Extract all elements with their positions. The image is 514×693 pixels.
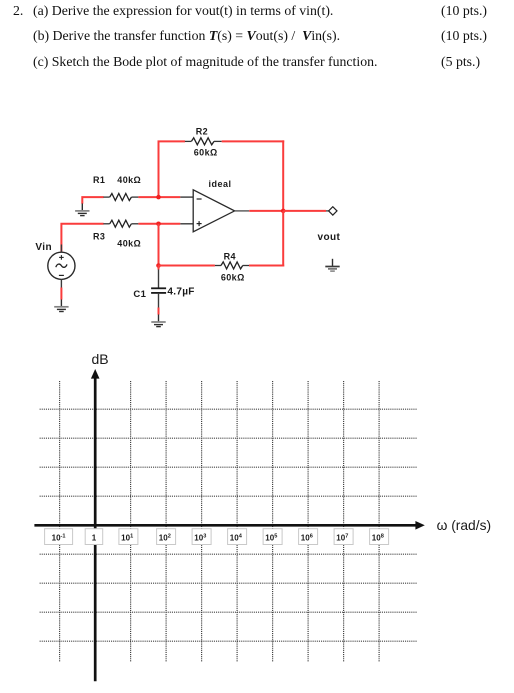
- wire from ground to R1: [82, 197, 103, 204]
- tick label 10^7: [334, 529, 353, 545]
- label 4.7µF: [167, 287, 194, 298]
- svg-text:60kΩ: 60kΩ: [221, 273, 245, 283]
- label 40kΩ of R3: [117, 239, 141, 249]
- wire output lead to output node: [249, 210, 283, 212]
- capacitor C1: [151, 288, 166, 293]
- svg-text:40kΩ: 40kΩ: [117, 239, 141, 249]
- output node junction dot: [281, 209, 286, 214]
- ground G2: [325, 267, 339, 272]
- wire node C to R4: [159, 265, 215, 267]
- ground G4: [151, 322, 165, 327]
- svg-text:1: 1: [92, 533, 97, 542]
- svg-text:C1: C1: [133, 289, 146, 300]
- svg-text:Vin: Vin: [35, 242, 52, 253]
- node A junction dot: [156, 195, 161, 200]
- source Vin: [48, 252, 75, 279]
- tick label 10^1: [119, 529, 138, 545]
- tick label 10^4: [228, 529, 247, 545]
- Vin top lead: [60, 245, 62, 253]
- svg-text:vout: vout: [318, 232, 341, 243]
- label dB: [92, 351, 109, 367]
- label C1: [133, 289, 146, 300]
- Vin bottom lead: [60, 279, 62, 287]
- wire node B down to node C: [158, 224, 160, 266]
- problem statement line (a): [13, 4, 23, 18]
- tick label 10^8: [370, 529, 389, 545]
- C1 bottom stem: [158, 294, 160, 308]
- Bode grid horizontal dotted lines: [40, 409, 418, 641]
- tick label 10^5: [263, 529, 282, 545]
- wire plus stub to op-amp: [180, 223, 193, 225]
- ground G4 stem: [158, 315, 160, 322]
- svg-text:R3: R3: [93, 232, 105, 242]
- ground G1: [75, 211, 89, 216]
- op-amp U1: [193, 190, 234, 232]
- wire node A riser to R2: [158, 141, 160, 197]
- Bode horizontal axis omega: [34, 521, 424, 530]
- wire minus stub to op-amp: [180, 196, 193, 198]
- wire R3 to plus node: [138, 223, 180, 225]
- svg-text:R2: R2: [196, 127, 208, 137]
- resistor R4: [215, 262, 249, 269]
- node B junction dot: [156, 222, 161, 227]
- problem statement line (c): [33, 55, 377, 69]
- vout terminal lead: [326, 210, 329, 212]
- tick label 1: [85, 529, 103, 545]
- svg-text:R4: R4: [224, 252, 236, 262]
- label ideal: [208, 179, 231, 189]
- wire top left to R2: [158, 140, 186, 142]
- resistor R3: [103, 220, 138, 227]
- C1 top stem: [158, 270, 160, 288]
- label omega rad/s: [437, 518, 491, 533]
- resistor R1: [103, 194, 138, 201]
- wire Vin top corner to R3: [61, 224, 103, 253]
- wire node C to C1: [158, 266, 160, 270]
- resistor R2: [185, 138, 222, 145]
- tick label 10^-1: [45, 529, 73, 545]
- label R4: [224, 252, 236, 262]
- wire R1 to minus node: [138, 196, 180, 198]
- tick label 10^3: [192, 529, 211, 545]
- svg-text:4.7µF: 4.7µF: [167, 287, 194, 298]
- wire C1 to ground G4: [158, 308, 160, 315]
- label vout: [318, 232, 341, 243]
- wire right rail down to R4 line: [282, 211, 284, 267]
- ground G2 stem: [332, 259, 334, 266]
- op-amp output lead: [235, 210, 250, 212]
- svg-text:ω (rad/s): ω (rad/s): [437, 518, 491, 533]
- ground G3: [54, 307, 68, 312]
- svg-text:R1: R1: [93, 175, 105, 185]
- label R2: [196, 127, 208, 137]
- vout terminal diamond: [329, 207, 337, 215]
- svg-text:dB: dB: [92, 351, 109, 367]
- wire output node to vout terminal: [283, 210, 326, 212]
- wire right rail down to output node: [282, 140, 284, 211]
- tick label 10^6: [299, 529, 318, 545]
- label Vin: [35, 242, 52, 253]
- Bode grid vertical dotted lines: [60, 381, 380, 662]
- node C junction dot: [156, 263, 161, 268]
- svg-text:ideal: ideal: [208, 179, 231, 189]
- problem statement line (b): [33, 29, 340, 43]
- label 60kΩ of R4: [221, 273, 245, 283]
- wire Vin to ground G3: [60, 288, 62, 300]
- label R1 40kΩ: [93, 175, 141, 185]
- svg-text:40kΩ: 40kΩ: [117, 175, 141, 185]
- wire R4 to right rail: [249, 265, 284, 267]
- Bode vertical axis dB: [91, 369, 100, 681]
- ground G1 stem: [81, 204, 83, 211]
- tick label 10^2: [157, 529, 176, 545]
- svg-text:60kΩ: 60kΩ: [194, 148, 218, 158]
- ground G3 stem: [60, 300, 62, 307]
- label R3: [93, 232, 105, 242]
- label 60kΩ of R2: [194, 148, 218, 158]
- wire R2 to right rail: [222, 140, 285, 142]
